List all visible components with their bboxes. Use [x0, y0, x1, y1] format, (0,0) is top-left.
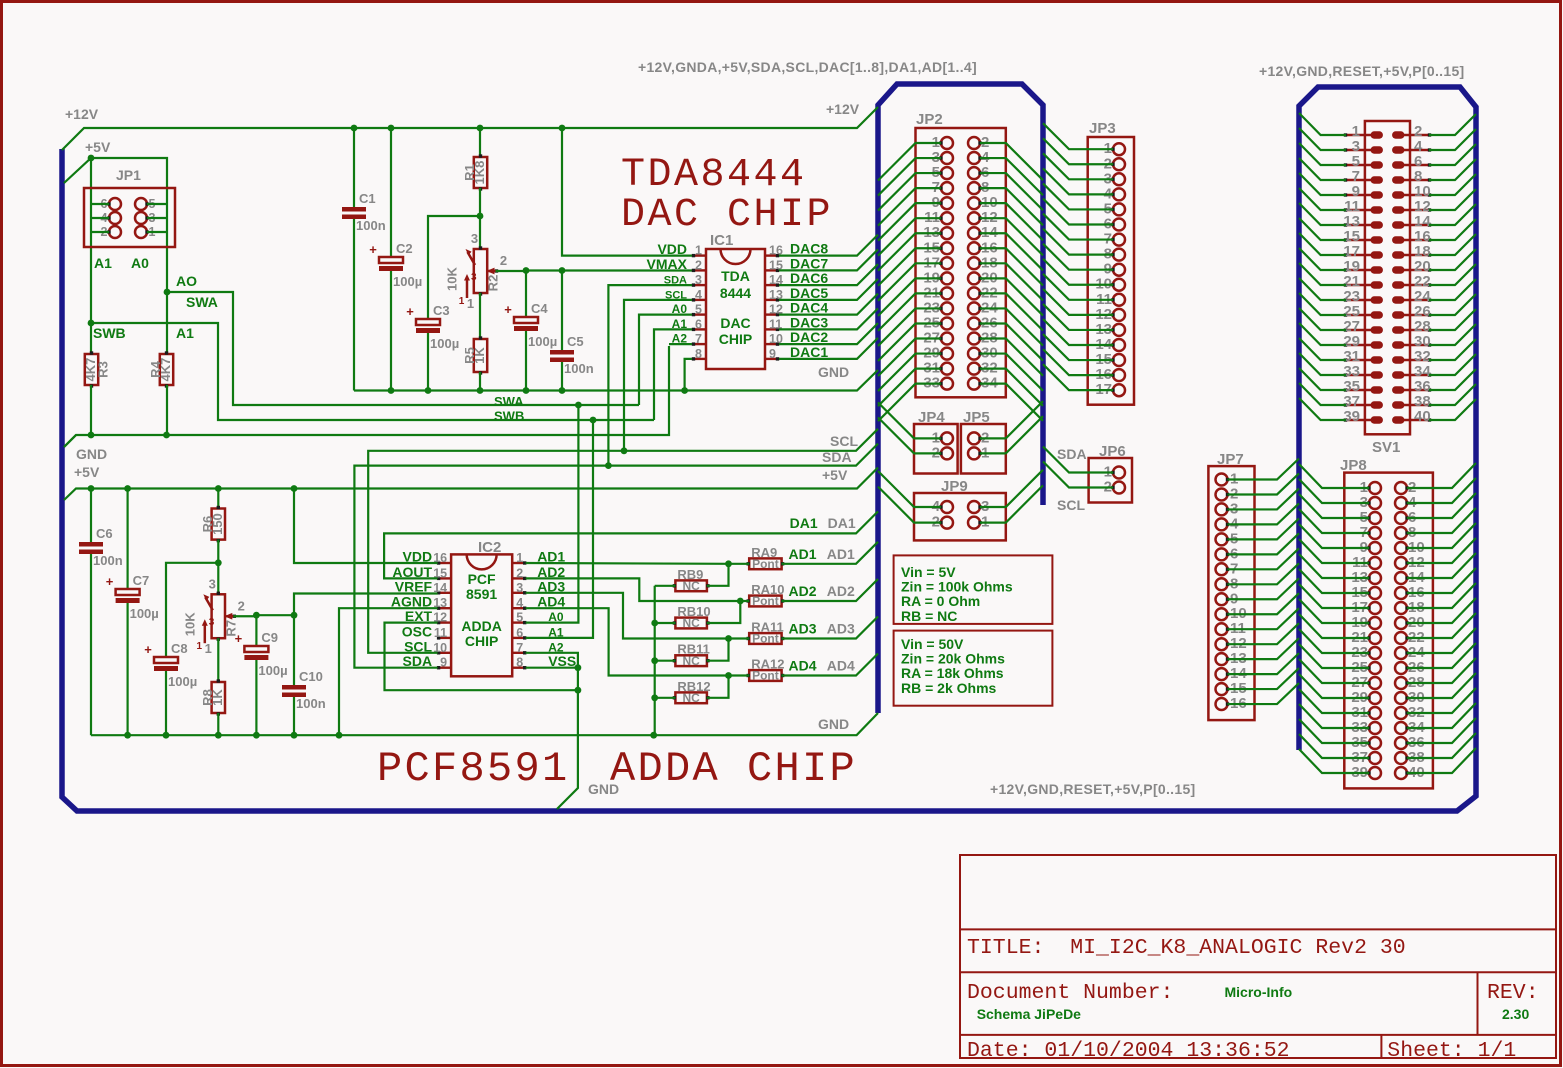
wire JP8 pin 32 to bus [1407, 688, 1476, 713]
svg-text:Sheet: 1/1: Sheet: 1/1 [1387, 1039, 1516, 1063]
wire JP7 pin 4 to bus [1228, 503, 1300, 524]
wire JP4 pin1 to bus [878, 402, 941, 438]
svg-text:+: + [369, 242, 377, 257]
wire JP2 pin 31 to bus [878, 369, 941, 407]
wire R5 bottom [479, 372, 481, 391]
wire R3 bottom [90, 385, 92, 435]
wire JP2 pin 27 to bus [878, 339, 941, 377]
svg-text:Pont: Pont [752, 669, 779, 683]
wire JP8 pin 8 to bus [1407, 508, 1476, 533]
wire JP8 pin 19 to bus [1299, 599, 1369, 623]
junction GND/R3 [88, 432, 95, 439]
wire SV1 pin 12 to bus [1429, 189, 1476, 210]
net VREF wiper wire [256, 614, 294, 616]
svg-text:CHIP: CHIP [465, 633, 498, 649]
wire JP8 pin 38 to bus [1407, 733, 1476, 758]
wire JP2 pin 5 to bus [878, 173, 941, 211]
wire JP8 pin 23 to bus [1299, 629, 1369, 653]
wire JP9 pin1 to bus [980, 485, 1043, 522]
svg-text:40: 40 [1414, 408, 1431, 425]
wire RB11 left [655, 660, 676, 662]
wire JP2 pin 13 to bus [878, 233, 941, 270]
wire SV1 pin 29 to bus [1299, 323, 1346, 345]
net VREF wire [294, 594, 438, 616]
connector JP9 [914, 493, 1006, 540]
wire JP5 pin1 to bus [980, 416, 1043, 453]
wire JP2 pin 33 to bus [878, 384, 941, 422]
svg-text:100µ: 100µ [258, 663, 287, 678]
wire R6 top [217, 489, 219, 509]
net +12V rail [62, 107, 878, 150]
wire R4 bottom [166, 385, 168, 435]
svg-text:AO: AO [176, 273, 197, 289]
capacitor C6 [79, 526, 123, 568]
svg-text:+12V,GNDA,+5V,SDA,SCL,DAC[1..8: +12V,GNDA,+5V,SDA,SCL,DAC[1..8],DA1,AD[1… [638, 59, 977, 75]
svg-text:VREF: VREF [395, 578, 433, 594]
wire C10 bottom [293, 697, 295, 735]
IC IC1 inner labels [719, 268, 752, 347]
svg-text:PCF: PCF [468, 571, 496, 587]
svg-text:Zin = 100k Ohms: Zin = 100k Ohms [901, 579, 1013, 595]
svg-text:3: 3 [471, 272, 477, 283]
svg-text:100µ: 100µ [168, 674, 197, 689]
wire JP7 pin 8 to bus [1228, 563, 1300, 584]
wire JP2 pin 22 to bus [980, 293, 1043, 330]
wire C1 bottom [353, 219, 355, 391]
svg-text:ADDA: ADDA [610, 745, 720, 793]
junction +5V/IC2-VDD riser [291, 485, 298, 492]
wire JP2 pin 20 to bus [980, 278, 1043, 315]
IC IC2 body [451, 554, 512, 676]
wire JP2 pin 10 to bus [980, 203, 1043, 240]
wire JP3 pin 9 to bus [1043, 244, 1113, 270]
wire SV1 pin 28 to bus [1429, 309, 1476, 330]
wire C10 top [293, 615, 295, 685]
wire SV1 pin 14 to bus [1429, 204, 1476, 225]
svg-text:2: 2 [500, 253, 507, 268]
svg-text:JP3: JP3 [1089, 120, 1116, 137]
svg-text:GND: GND [76, 446, 107, 462]
wire R2 wiper [496, 270, 527, 272]
wire C2 bottom [390, 271, 392, 391]
svg-text:REV:: REV: [1487, 981, 1539, 1005]
net EXT wire [385, 623, 578, 691]
wire JP3 pin 17 to bus [1043, 364, 1113, 390]
resistor R8 [200, 679, 225, 715]
wire SV1 pin 15 to bus [1299, 218, 1346, 240]
wire JP8 pin 35 to bus [1299, 719, 1369, 743]
wire SV1 pin 20 to bus [1429, 249, 1476, 270]
info box 1 [894, 555, 1053, 624]
wire JP3 pin 1 to bus [1043, 123, 1113, 149]
wire IC2 VSS [526, 667, 578, 669]
junction wiper/C10/VREF [291, 612, 298, 619]
svg-text:4: 4 [516, 596, 523, 610]
svg-text:DAC4: DAC4 [790, 300, 828, 316]
wire DAC3 to bus [779, 308, 878, 329]
info box 2 [894, 631, 1053, 706]
wire JP3 pin 15 to bus [1043, 334, 1113, 360]
svg-text:R1: R1 [462, 164, 477, 181]
wire DAC7 to bus [779, 249, 878, 270]
svg-text:IC1: IC1 [710, 232, 733, 249]
svg-text:+12V: +12V [65, 106, 99, 122]
svg-text:4: 4 [695, 288, 702, 302]
svg-text:RB = 2k Ohms: RB = 2k Ohms [901, 680, 997, 696]
wire JP8 pin 24 to bus [1407, 628, 1476, 653]
wire C5 top [561, 271, 563, 351]
junction GND rail x=339 [336, 732, 343, 739]
svg-text:+12V: +12V [826, 101, 860, 117]
svg-text:DAC8: DAC8 [790, 241, 828, 257]
svg-text:AD3: AD3 [789, 621, 817, 637]
wire JP3 pin 13 to bus [1043, 304, 1113, 330]
wire JP3 pin 16 to bus [1043, 349, 1113, 375]
svg-text:AD4: AD4 [789, 658, 817, 674]
wire IC2 AD2 [526, 578, 741, 601]
svg-text:Micro-Info: Micro-Info [1225, 984, 1293, 1000]
wire JP8 pin 17 to bus [1299, 584, 1369, 608]
svg-text:AD2: AD2 [789, 583, 817, 599]
wire JP2 pin 28 to bus [980, 339, 1043, 376]
wire JP6 pin2 to bus [1043, 462, 1113, 488]
capacitor C9 [235, 630, 288, 678]
svg-text:Schema JiPeDe: Schema JiPeDe [977, 1006, 1081, 1022]
bus middle (+12V,GNDA,+5V,SDA,SCL,DAC[1..8],DA1,AD[1..4]) [878, 84, 1043, 713]
wire SV1 pin 35 to bus [1299, 368, 1346, 390]
wire JP8 pin 6 to bus [1407, 493, 1476, 518]
svg-text:C7: C7 [133, 573, 150, 588]
svg-text:1: 1 [459, 296, 465, 307]
wire IC1 SDA [608, 285, 692, 466]
wire JP8 pin 39 to bus [1299, 749, 1369, 773]
resistor RA10 [747, 582, 785, 608]
wire JP2 pin 3 to bus [878, 158, 941, 196]
svg-text:3: 3 [209, 617, 215, 628]
wire JP8 pin 21 to bus [1299, 614, 1369, 638]
svg-text:Vin = 5V: Vin = 5V [901, 564, 956, 580]
svg-text:100n: 100n [93, 553, 123, 568]
wire AD1 to bus [729, 563, 750, 565]
wire JP7 pin 12 to bus [1228, 623, 1300, 644]
wire SV1 pin 4 to bus [1429, 129, 1476, 150]
wire JP3 pin 10 to bus [1043, 259, 1113, 285]
svg-text:7: 7 [695, 332, 702, 346]
wire JP8 pin 27 to bus [1299, 659, 1369, 683]
wire JP8 pin 9 to bus [1299, 524, 1369, 548]
svg-text:AD1: AD1 [789, 546, 817, 562]
wire C5 bottom [561, 362, 563, 391]
svg-text:3: 3 [516, 581, 523, 595]
wire JP7 pin 15 to bus [1228, 668, 1300, 689]
svg-text:GND: GND [818, 716, 849, 732]
wire JP2 pin 24 to bus [980, 308, 1043, 345]
svg-text:JP7: JP7 [1217, 451, 1244, 468]
svg-text:3: 3 [471, 231, 478, 246]
wire JP2 pin 4 to bus [980, 158, 1043, 195]
svg-text:100n: 100n [564, 361, 594, 376]
junction AD4/RB12 [725, 672, 732, 679]
resistor R4 [148, 351, 173, 387]
wire JP8 pin 11 to bus [1299, 539, 1369, 563]
net GND bottom rail [91, 713, 878, 735]
wire SV1 pin 6 to bus [1429, 144, 1476, 165]
wire C7 bottom [126, 603, 128, 735]
junction GND rail x=653.7 [650, 732, 657, 739]
junction +12V/C2 [388, 125, 395, 132]
wire SV1 pin 40 to bus [1429, 399, 1476, 420]
wire JP2 pin 25 to bus [878, 323, 941, 361]
wire JP1 pin4 stub [91, 217, 109, 219]
wire IC2 AD4 [526, 608, 729, 675]
wire JP8 pin 10 to bus [1407, 523, 1476, 548]
wire SV1 pin 5 to bus [1299, 143, 1346, 165]
svg-text:RA = 18k Ohms: RA = 18k Ohms [901, 665, 1004, 681]
wire JP8 pin 13 to bus [1299, 554, 1369, 578]
wire SV1 pin 10 to bus [1429, 174, 1476, 195]
junction GNDA/IC1-pin8 [681, 387, 688, 394]
wire SV1 pin 3 to bus [1299, 128, 1346, 150]
wire JP2 pin 26 to bus [980, 323, 1043, 360]
svg-text:Document Number:: Document Number: [967, 981, 1173, 1005]
potentiometer R7 [182, 576, 256, 656]
wire JP7 pin 9 to bus [1228, 578, 1300, 599]
junction VMAX/C4 [523, 267, 530, 274]
svg-text:JP9: JP9 [941, 478, 968, 495]
wire JP8 pin 12 to bus [1407, 538, 1476, 563]
svg-text:3: 3 [695, 273, 702, 287]
junction GND rail x=127.6 [124, 732, 131, 739]
wire SV1 pin 21 to bus [1299, 263, 1346, 285]
svg-text:ADDA: ADDA [461, 618, 501, 634]
svg-text:2: 2 [695, 258, 702, 272]
svg-text:TITLE: MI_I2C_K8_ANALOGIC Rev: TITLE: MI_I2C_K8_ANALOGIC Rev2 30 [967, 936, 1406, 960]
wire JP7 pin 3 to bus [1228, 488, 1300, 509]
svg-text:+12V,GND,RESET,+5V,P[0..15]: +12V,GND,RESET,+5V,P[0..15] [1259, 63, 1465, 79]
wire JP8 pin 14 to bus [1407, 553, 1476, 578]
net AO/SWA wire [167, 292, 639, 405]
svg-text:NC: NC [682, 616, 700, 630]
svg-text:OSC: OSC [402, 623, 432, 639]
wire SV1 pin 34 to bus [1429, 354, 1476, 375]
wire JP3 pin 5 to bus [1043, 183, 1113, 209]
junction GNDA/C3 [425, 387, 432, 394]
wire JP9 pin2 to bus [878, 487, 941, 523]
svg-text:8: 8 [695, 347, 702, 361]
wire JP8 pin 29 to bus [1299, 674, 1369, 698]
resistor R5 [462, 336, 487, 374]
svg-text:1: 1 [197, 641, 203, 652]
wire C9 top [255, 615, 257, 646]
wire JP9 pin4 to bus [878, 471, 941, 507]
wire C8 bottom [165, 671, 167, 735]
wire JP8 pin 20 to bus [1407, 598, 1476, 623]
svg-text:C8: C8 [171, 641, 188, 656]
wire C1 top [353, 128, 355, 207]
wire JP8 pin 15 to bus [1299, 569, 1369, 593]
svg-text:1: 1 [467, 296, 474, 311]
junction GNDA/C5 [559, 387, 566, 394]
svg-text:R6: R6 [200, 516, 215, 533]
junction GND rail x=256.4 [253, 732, 260, 739]
capacitor C5 [550, 334, 594, 376]
junction A1/SWB node [88, 320, 95, 327]
wire JP8 pin 37 to bus [1299, 734, 1369, 758]
wire JP8 pin 3 to bus [1299, 479, 1369, 503]
wire JP4 pin2 to bus [878, 417, 941, 453]
svg-text:8591: 8591 [466, 586, 497, 602]
wire SV1 pin 8 to bus [1429, 159, 1476, 180]
net +5V lower rail [64, 468, 878, 501]
svg-text:+5V: +5V [822, 467, 848, 483]
wire JP2 pin 32 to bus [980, 369, 1043, 406]
svg-text:DAC7: DAC7 [790, 255, 828, 271]
wire RB12 left [655, 697, 676, 699]
junction GND rail x=218.3 [215, 732, 222, 739]
svg-text:11: 11 [434, 626, 447, 640]
potentiometer R2 [445, 231, 527, 311]
junction EXT/VSS/GND [575, 687, 582, 694]
wire JP8 pin 1 to bus [1299, 464, 1369, 488]
svg-text:A0: A0 [131, 255, 149, 271]
connector JP8 [1344, 473, 1433, 789]
wire RB10 right [707, 601, 740, 623]
wire R7 wiper [233, 615, 256, 617]
svg-text:+5V: +5V [74, 464, 100, 480]
wire JP1 left column to SWB junction [90, 158, 92, 323]
svg-text:R5: R5 [462, 347, 477, 364]
svg-text:1: 1 [205, 641, 212, 656]
junction SDA/IC1 [605, 462, 612, 469]
svg-text:DA1: DA1 [790, 515, 818, 531]
net SDA long wire [354, 444, 878, 668]
junction GND/R4 [163, 432, 170, 439]
wire SV1 pin 37 to bus [1299, 383, 1346, 405]
junction GNDA/C4 [523, 387, 530, 394]
wire SV1 pin 36 to bus [1429, 369, 1476, 390]
svg-text:SDA: SDA [822, 449, 852, 465]
capacitor C8 [144, 641, 197, 689]
wire C4 top [525, 271, 527, 318]
wire DAC2 to bus [779, 323, 878, 344]
wire IC1 A2 to GND [669, 343, 692, 345]
svg-text:R4: R4 [148, 360, 163, 377]
wire JP2 pin 19 to bus [878, 278, 941, 316]
svg-text:5: 5 [516, 611, 523, 625]
wire SV1 pin 33 to bus [1299, 353, 1346, 375]
wire JP3 pin 2 to bus [1043, 138, 1113, 164]
svg-text:SWB: SWB [494, 409, 524, 424]
wire JP7 pin 16 to bus [1228, 683, 1300, 704]
wire JP3 pin 14 to bus [1043, 319, 1113, 345]
wire C6 top [90, 489, 92, 543]
wire JP7 pin 11 to bus [1228, 608, 1300, 629]
svg-text:TDA: TDA [721, 268, 750, 284]
svg-text:3: 3 [209, 576, 216, 591]
net SCL long wire [368, 429, 878, 653]
resistor R3 [83, 351, 111, 387]
junction wiper/C9 [253, 612, 260, 619]
connector JP4 [914, 424, 958, 474]
wire C9 bottom [255, 660, 257, 735]
wire JP2 pin 17 to bus [878, 263, 941, 301]
wire JP7 pin 5 to bus [1228, 518, 1300, 539]
wire SV1 pin 30 to bus [1429, 324, 1476, 345]
svg-text:39: 39 [1343, 408, 1360, 425]
junction +5V/R6 [215, 485, 222, 492]
svg-text:8444: 8444 [720, 285, 751, 301]
svg-text:SWA: SWA [186, 294, 218, 310]
wire IC2 A0 to SWA riser [526, 405, 579, 623]
svg-text:SWB: SWB [93, 325, 126, 341]
svg-text:JP4: JP4 [918, 409, 945, 426]
wire JP2 pin 34 to bus [980, 384, 1043, 421]
wire JP8 pin 26 to bus [1407, 643, 1476, 668]
net DA1/AOUT wire [384, 511, 878, 578]
wire DAC1 to bus [779, 338, 878, 359]
IC IC2 pin names [391, 549, 576, 670]
svg-text:C1: C1 [359, 191, 376, 206]
wire AD4 to bus [729, 674, 750, 676]
resistor RB11 [673, 642, 710, 668]
wire JP2 pin 11 to bus [878, 218, 941, 256]
svg-text:+: + [106, 574, 114, 589]
wire C7 top [126, 489, 128, 590]
wire JP2 pin 1 to bus [878, 143, 941, 181]
wire JP3 pin 3 to bus [1043, 153, 1113, 179]
svg-text:C3: C3 [433, 303, 450, 318]
rotation arrow R2 [459, 272, 477, 307]
svg-text:DAC6: DAC6 [790, 270, 828, 286]
svg-text:PCF8591: PCF8591 [377, 745, 570, 793]
svg-text:CHIP: CHIP [747, 745, 857, 793]
junction +5V/JP1-left [88, 155, 95, 162]
junction GNDA/C2 [388, 387, 395, 394]
IC IC1 pin names [647, 241, 688, 346]
wire JP2 pin 18 to bus [980, 263, 1043, 300]
capacitor C2 [369, 241, 422, 289]
wire JP3 pin 11 to bus [1043, 274, 1113, 300]
svg-text:Zin = 20k Ohms: Zin = 20k Ohms [901, 651, 1005, 667]
net A1/SWB wire [91, 323, 654, 420]
junction +12V/C1 [351, 125, 358, 132]
wire JP8 pin 18 to bus [1407, 583, 1476, 608]
wire JP8 pin 28 to bus [1407, 658, 1476, 683]
junction AD2/RB10 [737, 598, 744, 605]
svg-text:RA = 0 Ohm: RA = 0 Ohm [901, 593, 980, 609]
wire JP1 pin1 stub [147, 231, 167, 233]
junction +5V/C7 [124, 485, 131, 492]
svg-text:100µ: 100µ [130, 606, 159, 621]
wire IC1 pin8 to GNDA [685, 359, 692, 391]
wire RB11 right [707, 639, 729, 661]
IC IC1 pin stubs [692, 254, 779, 361]
wire JP8 pin 36 to bus [1407, 718, 1476, 743]
wire IC2 VDD from +5V [294, 489, 438, 564]
wire JP8 pin 30 to bus [1407, 673, 1476, 698]
wire R5 top [479, 293, 481, 339]
svg-text:100n: 100n [356, 218, 386, 233]
wire RB9 right [707, 564, 729, 586]
svg-text:1: 1 [695, 244, 702, 258]
svg-text:JP6: JP6 [1099, 443, 1126, 460]
wire JP9 pin3 to bus [980, 470, 1043, 507]
wire JP8 pin 2 to bus [1407, 463, 1476, 488]
junction RB10 common [651, 620, 658, 627]
IC IC2 pin numbers [433, 551, 523, 670]
svg-text:8: 8 [516, 656, 523, 670]
wire JP7 pin 14 to bus [1228, 653, 1300, 674]
